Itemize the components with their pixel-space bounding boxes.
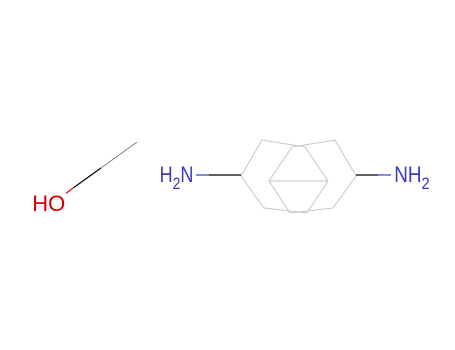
svg-text:HO: HO [32, 191, 65, 216]
bond N-C left: blue part [196, 174, 209, 176]
bond C-N right: black part [356, 174, 378, 176]
bond N-C left: black part [209, 174, 241, 176]
bond C-N right: blue part [378, 174, 391, 176]
ethanol: bond O-C red part [66, 188, 74, 194]
cyclohexane ring right (light) [269, 140, 356, 213]
ethanol: bond O-C black part [74, 168, 102, 188]
cyclohexane ring left (light) [241, 140, 328, 213]
inter-ring bond C4-C4' [269, 180, 328, 182]
ethanol: bond C-C gray part [101, 142, 137, 168]
